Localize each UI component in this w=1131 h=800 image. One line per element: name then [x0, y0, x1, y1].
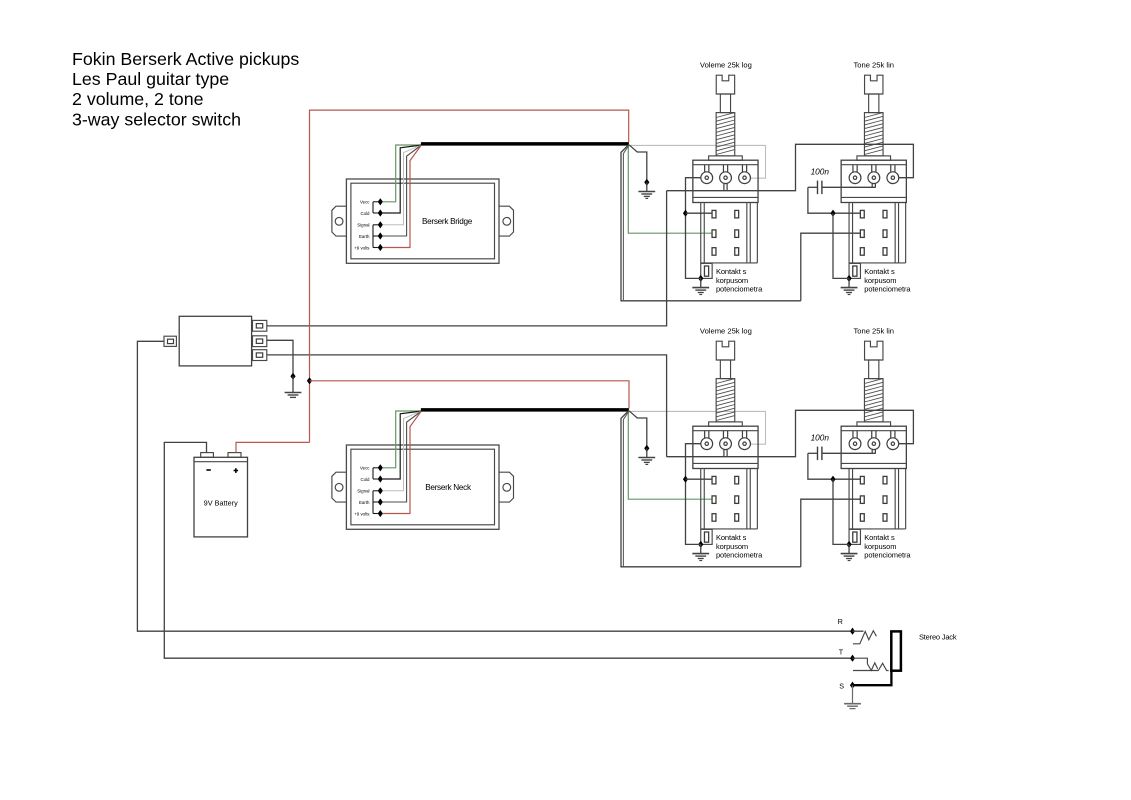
- jack sleeve to ground: [844, 685, 861, 708]
- plus sign: [234, 468, 239, 473]
- svg-text:R: R: [838, 617, 843, 626]
- R contact spring: [853, 631, 877, 644]
- wire: selector lug3 to neck volume wiper rail: [267, 355, 667, 457]
- svg-text:Berserk Neck: Berserk Neck: [425, 483, 472, 492]
- selector lug 2 (to ground): [253, 336, 267, 347]
- svg-text:3-way selector switch: 3-way selector switch: [72, 109, 241, 129]
- neck pickup section: [332, 326, 914, 567]
- selector lug 3 (to neck volume): [253, 350, 267, 361]
- svg-text:Les Paul guitar type: Les Paul guitar type: [72, 69, 229, 89]
- svg-text:9V Battery: 9V Battery: [204, 499, 238, 508]
- svg-text:Fokin Berserk Active pickups: Fokin Berserk Active pickups: [72, 49, 299, 69]
- svg-text:S: S: [839, 682, 844, 691]
- wire: battery plus (red) up to supply rail: [236, 442, 310, 452]
- red +9V supply rail: [310, 110, 629, 442]
- wire: selector lug1 to bridge volume wiper rail: [267, 191, 667, 326]
- selector lug 1 (to bridge volume): [253, 320, 267, 331]
- svg-text:2 volume, 2 tone: 2 volume, 2 tone: [72, 89, 204, 109]
- 3-way selector switch body: [179, 316, 251, 366]
- wire: selector common down to jack R: [137, 341, 850, 631]
- svg-text:Berserk Bridge: Berserk Bridge: [422, 217, 473, 226]
- svg-text:Stereo Jack: Stereo Jack: [919, 633, 957, 642]
- T contact shelf with bump: [853, 663, 889, 670]
- svg-text:T: T: [839, 648, 844, 657]
- title text block: [72, 49, 299, 130]
- selector ground symbol: [285, 376, 302, 397]
- 9V battery: [194, 457, 248, 537]
- battery terminals: [201, 453, 214, 458]
- minus sign: [206, 469, 210, 471]
- red branch to neck cable: [307, 377, 312, 384]
- bridge pickup section: [332, 60, 914, 300]
- wire: selector lug2 to ground: [267, 340, 293, 376]
- stereo jack body: [891, 631, 901, 670]
- selector common lug (left): [164, 336, 176, 346]
- wire: battery minus to jack T: [164, 442, 850, 658]
